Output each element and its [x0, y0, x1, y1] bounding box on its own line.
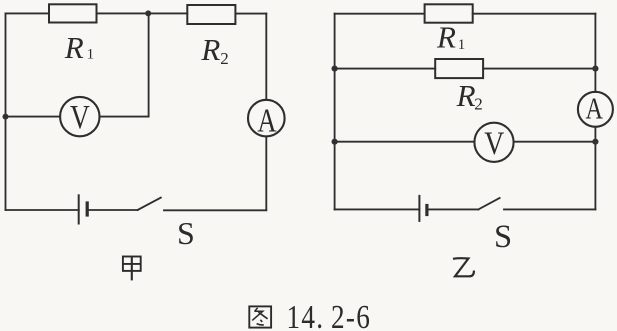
svg-text:R: R: [200, 32, 220, 67]
ammeter A1: [248, 100, 285, 137]
wire: battery to switch: [427, 208, 479, 210]
battery cell: long plate: [418, 196, 420, 221]
svg-text:R: R: [64, 30, 84, 65]
label R1 (left): [64, 30, 94, 65]
node second-wire left: [332, 66, 338, 72]
svg-text:R: R: [456, 78, 476, 113]
node third-wire left: [332, 139, 338, 145]
node junction left (voltmeter branch): [3, 114, 9, 120]
ammeter A2: [578, 92, 613, 127]
node second-wire right: [592, 66, 598, 72]
switch S blade (open): [478, 198, 499, 209]
wire: right vertical upper: [594, 14, 596, 92]
wire: left vertical: [5, 13, 7, 210]
wire: switch to bottom-right: [504, 208, 595, 210]
svg-text:1: 1: [87, 47, 95, 63]
wire: top-left segment: [335, 13, 425, 15]
svg-text:2: 2: [220, 49, 229, 68]
wire: right vertical upper (to ammeter): [265, 14, 267, 100]
svg-text:S: S: [494, 219, 512, 255]
node junction top (R1/R2/voltmeter branch): [145, 10, 151, 16]
wire: second wire right: [483, 68, 595, 70]
wire: right vertical lower (ammeter to bottom): [265, 136, 267, 210]
resistor R1': [425, 4, 473, 22]
voltmeter V1: [60, 97, 99, 136]
resistor R2': [435, 59, 483, 78]
battery cell: long plate: [78, 195, 80, 223]
wire: switch to bottom-right: [164, 209, 266, 211]
battery cell: short thick plate: [86, 203, 89, 215]
resistor R1: [49, 4, 97, 22]
svg-text:2: 2: [474, 95, 483, 114]
svg-text:R: R: [436, 20, 456, 55]
svg-text:14. 2-6: 14. 2-6: [287, 298, 372, 331]
node third-wire right: [592, 139, 598, 145]
resistor R2: [187, 5, 235, 24]
switch S blade (open): [138, 198, 161, 210]
wire: top-left segment: [6, 12, 50, 14]
svg-text:V: V: [484, 125, 504, 162]
wire: second wire left: [335, 68, 436, 70]
svg-text:1: 1: [458, 37, 466, 53]
wire: R1' to top-right corner: [473, 13, 596, 15]
wire: third wire left (to voltmeter): [335, 141, 475, 143]
svg-text:V: V: [70, 99, 90, 136]
label 乙 (drawn glyph): [453, 258, 474, 276]
svg-text:A: A: [257, 101, 276, 139]
svg-text:A: A: [585, 92, 602, 127]
wire: battery to switch: [87, 209, 137, 211]
wire: left vertical: [334, 14, 336, 210]
wire: branch vertical up to junction: [148, 13, 150, 116]
wire: R2 to top-right corner: [235, 13, 266, 15]
label R2 (right): [456, 78, 483, 114]
battery cell: short thick plate: [425, 206, 428, 215]
wire: bottom left to battery: [6, 209, 79, 211]
caption 图 (drawn glyph): [249, 306, 271, 327]
label R1 (right): [436, 20, 465, 55]
wire: voltmeter branch left: [6, 116, 61, 118]
label R2 (left): [200, 32, 228, 68]
wire: third wire right: [514, 141, 596, 143]
label 甲 (drawn glyph): [123, 257, 141, 281]
wire: voltmeter branch right: [100, 116, 149, 118]
wire: right vertical below ammeter: [594, 127, 596, 210]
wire: bottom left to battery: [335, 208, 420, 210]
wire: R1 to junction to R2: [97, 12, 188, 14]
svg-text:S: S: [177, 215, 195, 251]
voltmeter V2: [474, 123, 513, 162]
